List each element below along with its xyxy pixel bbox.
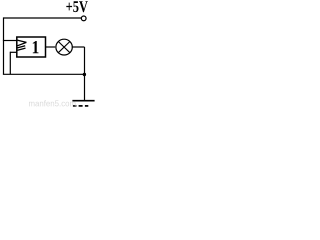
- wire lamp to right vertical: [72, 46, 85, 48]
- or-gate label 1: [33, 41, 39, 53]
- wire gate output: [46, 46, 56, 48]
- node +5V terminal circle: [81, 16, 86, 21]
- wire input 2 vertical: [9, 52, 11, 75]
- or-gate U1 box: [17, 37, 46, 57]
- wire input 1: [3, 40, 17, 42]
- label +5V: [66, 1, 88, 12]
- lamp L1 cross: [58, 42, 70, 53]
- ground dashes: [73, 105, 88, 107]
- lamp L1 circle: [56, 39, 72, 55]
- or-gate label greater-equal glyph: [17, 40, 26, 50]
- ground bar: [72, 100, 94, 102]
- wire right vertical: [84, 47, 86, 101]
- junction dot: [83, 73, 86, 76]
- wire bottom: [3, 73, 85, 75]
- watermark: [29, 100, 76, 106]
- wire input 2 horizontal: [10, 51, 16, 53]
- wire top from left corner to +5V terminal: [4, 17, 82, 19]
- wire left vertical: [3, 17, 5, 74]
